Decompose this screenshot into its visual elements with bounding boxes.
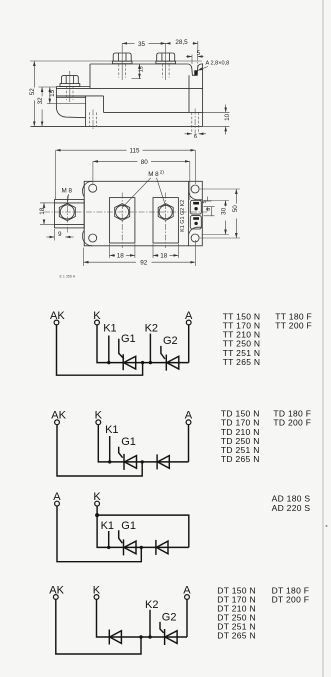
dimension 30 (gate tabs)	[202, 201, 230, 235]
node K1 label	[105, 424, 118, 436]
gate wire G2	[161, 346, 165, 359]
wire K2 down to main line	[149, 334, 151, 363]
svg-text:10: 10	[224, 113, 231, 121]
svg-text:TT 200 F: TT 200 F	[275, 321, 312, 331]
gate wire G1	[119, 447, 123, 458]
terminal AK	[51, 410, 66, 425]
thyristor cathode bar	[123, 539, 125, 555]
thyristor triangle	[165, 631, 177, 644]
wire antiparallel loop (top and right)	[97, 515, 189, 547]
mounting hole right (hidden lines)	[192, 109, 199, 137]
thyristor 1 triangle	[124, 356, 136, 369]
label M 8 2) with leaders to pads	[123, 170, 166, 208]
node K2 label	[145, 599, 158, 611]
thyristor 2 cathode bar	[165, 355, 167, 371]
DT type list	[217, 585, 309, 640]
svg-text:K2: K2	[145, 599, 158, 611]
diode cathode bar	[108, 630, 110, 645]
diode triangle	[158, 456, 170, 469]
terminal AK	[50, 310, 65, 325]
svg-text:K1: K1	[101, 520, 114, 532]
dimension 18 under pad 1	[110, 244, 135, 260]
svg-text:AD 180 S: AD 180 S	[272, 494, 311, 504]
svg-text:A: A	[53, 491, 61, 503]
dimension 5 (tab offset)	[186, 50, 204, 70]
gate wire G1	[119, 530, 123, 543]
LISTS	[217, 312, 312, 641]
svg-text:TD 200 F: TD 200 F	[273, 418, 311, 428]
mounting hole left (hidden lines)	[89, 110, 96, 131]
svg-text:6: 6	[194, 134, 197, 140]
svg-text:18: 18	[160, 253, 168, 260]
thyristor 1 cathode bar	[122, 354, 124, 370]
svg-text:80: 80	[141, 159, 149, 166]
svg-text:15: 15	[138, 66, 144, 72]
top terminal bolt 2 (side view)	[156, 43, 176, 80]
pad block 2 (top view)	[153, 193, 178, 249]
svg-text:A 2,8×0,8: A 2,8×0,8	[206, 61, 230, 67]
svg-text:DT 200 F: DT 200 F	[272, 595, 310, 605]
svg-text:AD 220 S: AD 220 S	[272, 503, 311, 513]
svg-text:5: 5	[197, 50, 201, 57]
wire diode anode up to terminal A	[188, 425, 190, 462]
top terminal bolt 1 (side view)	[112, 43, 132, 80]
diode cathode bar	[155, 540, 157, 555]
SIDEVIEW	[29, 39, 231, 140]
label M 8 with leader (left)	[62, 188, 73, 205]
node K1 label	[103, 323, 116, 335]
svg-text:K1: K1	[105, 424, 118, 436]
svg-text:E 1 356 A: E 1 356 A	[60, 275, 76, 279]
wire K2 down to thyristor cathode	[149, 610, 151, 637]
wire T2 anode up to terminal A	[188, 325, 190, 363]
svg-text:32: 32	[37, 97, 44, 105]
node G1 label	[121, 520, 136, 532]
wire K1 to cathode line	[109, 436, 111, 462]
junction K branch	[95, 513, 99, 517]
drawing number E 1 356 A	[60, 275, 76, 279]
dimension 28,5	[166, 39, 198, 53]
thyristor cathode bar	[164, 629, 166, 645]
svg-text:A: A	[185, 310, 193, 322]
left terminal bolt (side view)	[60, 71, 80, 102]
wire A down, along bottom, up to mid node	[57, 506, 141, 562]
svg-text:AK: AK	[50, 310, 65, 322]
wire AK down, along bottom, up to center node	[56, 600, 141, 655]
svg-text:K2: K2	[145, 323, 158, 335]
gate wire G1	[119, 339, 124, 359]
thyristor triangle	[124, 456, 136, 469]
thyristor cathode bar	[123, 454, 125, 470]
rotated pin labels K1 G1 G2 K2	[180, 200, 186, 232]
junction K1/K	[108, 460, 111, 463]
svg-text:92: 92	[140, 260, 148, 267]
dimension 10 (right)	[203, 105, 231, 135]
wire AK down, along bottom, up to center node	[57, 425, 142, 476]
junction center node (AK)	[141, 361, 144, 364]
terminal A	[183, 584, 191, 599]
module body outline (side view)	[56, 64, 202, 127]
svg-text:50: 50	[232, 205, 239, 213]
dimension 15	[49, 87, 56, 104]
svg-text:35: 35	[138, 41, 146, 48]
junction K2	[149, 361, 152, 364]
svg-text:G2: G2	[163, 335, 178, 347]
label A 2,8x0,8 with leader	[198, 61, 230, 71]
left main terminal block (top view)	[55, 200, 85, 228]
dimension 35	[122, 41, 166, 48]
junction center node (AK)	[141, 460, 144, 463]
svg-text:AK: AK	[49, 584, 64, 596]
svg-text:28,5: 28,5	[175, 39, 188, 46]
diode triangle	[156, 541, 168, 554]
terminal A	[53, 491, 61, 506]
svg-text:15: 15	[49, 89, 56, 97]
dimension 9	[47, 229, 74, 241]
svg-text:A: A	[183, 584, 191, 596]
wire K down to main line	[97, 506, 189, 547]
body outline (top view)	[84, 181, 202, 246]
horizontal body lines	[31, 87, 203, 127]
svg-text:G1: G1	[121, 436, 136, 448]
svg-text:18: 18	[39, 207, 46, 215]
svg-text:8: 8	[206, 208, 212, 211]
svg-text:K: K	[93, 584, 101, 596]
svg-text:TD 265 N: TD 265 N	[221, 454, 260, 464]
terminal K	[95, 410, 103, 425]
wire K down to main line	[98, 425, 188, 462]
wire K1 to cathode line	[108, 531, 110, 547]
svg-text:G1: G1	[121, 333, 136, 345]
svg-text:TT 265 N: TT 265 N	[223, 357, 261, 367]
junction center node (AK)	[139, 635, 142, 638]
dimension 18 (left block)	[39, 203, 55, 225]
svg-text:DT 265 N: DT 265 N	[217, 631, 256, 641]
left terminal hex nut M8	[59, 196, 75, 233]
dimension 50 (holes)	[200, 189, 240, 238]
svg-text:K: K	[93, 310, 101, 322]
page edge line	[323, 0, 328, 677]
svg-text:K: K	[95, 410, 103, 422]
node G1 label	[121, 333, 136, 345]
terminal AK	[49, 584, 64, 599]
vertical inner edges	[86, 64, 189, 126]
dimension 92	[84, 240, 196, 267]
terminal A	[185, 410, 193, 425]
SCH1 : TT module (two thyristors in series)	[50, 310, 193, 375]
dimension 15 (terminal depth, internal)	[132, 64, 145, 79]
svg-text:18: 18	[117, 253, 125, 260]
gate wire G2	[160, 622, 164, 633]
svg-text:A: A	[185, 410, 193, 422]
SCH4 : DT module (diode + thyristor series)	[49, 584, 191, 654]
junction mid node (A)	[140, 546, 143, 549]
junction K1/K	[107, 546, 110, 549]
dimension 80	[93, 159, 190, 200]
node G2 label	[162, 611, 177, 623]
wire AK down, along bottom, up to center node	[57, 325, 143, 375]
dimension 52	[29, 61, 202, 126]
svg-text:G2: G2	[162, 611, 177, 623]
node G2 label	[163, 335, 178, 347]
terminal K	[93, 491, 101, 506]
gate connector boxes (top view right edge)	[190, 200, 201, 229]
svg-text:M 8: M 8	[62, 188, 73, 195]
small dimensions 5 and 8 at gate tabs	[202, 197, 214, 216]
dimension 115	[56, 148, 196, 200]
TOPVIEW	[39, 148, 240, 279]
dimension 32	[37, 87, 56, 126]
svg-text:2): 2)	[160, 170, 165, 175]
terminal K	[93, 310, 101, 325]
corner ear arcs with mounting holes	[82, 181, 202, 246]
svg-text:5: 5	[202, 200, 208, 203]
terminal A	[185, 310, 193, 325]
node K1 label	[101, 520, 114, 532]
wire thyristor anode up to terminal A	[186, 600, 188, 638]
junction K1/K	[107, 361, 110, 364]
SCH2 : TD module (thyristor + diode series)	[51, 410, 193, 476]
svg-text:K: K	[93, 491, 101, 503]
svg-text:30: 30	[221, 207, 228, 215]
wire K down to main line	[97, 600, 188, 638]
horizontal centerline through nuts	[44, 211, 207, 213]
junction K2	[148, 635, 151, 638]
svg-text:115: 115	[129, 148, 140, 155]
svg-text:M 8: M 8	[148, 171, 159, 178]
svg-text:9: 9	[58, 231, 62, 238]
wire K down to main line	[97, 325, 189, 363]
svg-text:G1: G1	[121, 520, 136, 532]
TT type list	[223, 312, 312, 367]
svg-text:52: 52	[29, 88, 36, 96]
svg-text:AK: AK	[51, 410, 66, 422]
AD type list	[272, 494, 311, 513]
pad block 1 (top view)	[110, 193, 135, 249]
diode triangle	[110, 631, 122, 644]
dimension 18 under pad 2	[153, 244, 178, 260]
diode cathode bar	[156, 454, 158, 469]
svg-text:K1 G1 G2 K2: K1 G1 G2 K2	[180, 200, 186, 232]
node K2 label	[145, 323, 158, 335]
faston tab (A 2,8x0,8) side view	[194, 70, 197, 75]
thyristor 2 triangle	[167, 356, 179, 369]
wire K1 to cathode line	[108, 336, 110, 363]
thyristor triangle	[124, 541, 136, 554]
node G1 label	[121, 436, 136, 448]
svg-text:K1: K1	[103, 323, 116, 335]
TD type list	[221, 409, 311, 464]
SCH3 : AD module (thyristor with antiparallel diode)	[53, 491, 189, 562]
dimension 6 (hole dia)	[185, 134, 207, 140]
terminal K	[93, 584, 101, 599]
